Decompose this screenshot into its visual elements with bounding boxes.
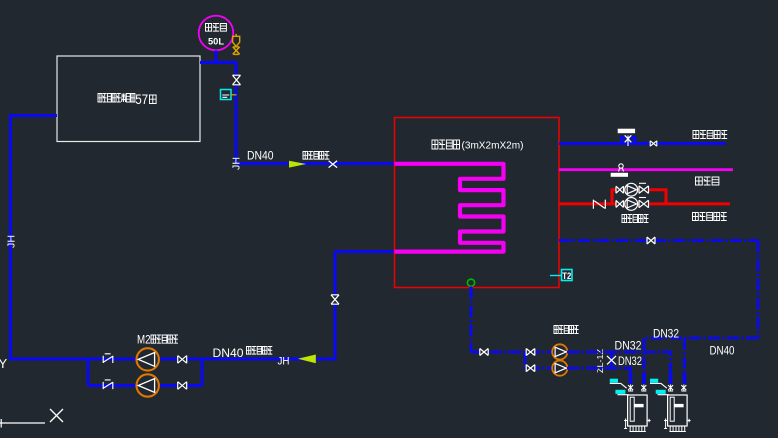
wire: tank bottom drop [470,287,473,353]
svg-text:DN32: DN32 [615,341,642,353]
check valve lower branch [103,380,113,389]
svg-text:T2: T2 [562,271,571,281]
svg-text:DN40: DN40 [710,346,735,358]
wire: collector outlet to left riser [11,114,58,117]
wire: pressure pump bypass branch [612,190,666,204]
wire: solid drops at boiler fittings [631,373,685,384]
wire: pump G1 discharge to right boiler [567,352,671,384]
svg-text:M2: M2 [137,335,151,347]
wire: cold water feed line [559,142,726,145]
svg-text:DN40: DN40 [247,151,274,163]
label 接热水供水 [693,213,727,221]
valve X on DN40 run [329,161,338,168]
boiler 1 sensor lines [610,383,629,394]
wire: bottom main run to pumps [9,358,88,361]
svg-text:57: 57 [135,92,148,107]
valve before boiler pump G2 [526,365,535,372]
svg-text:(3mX2mX2m): (3mX2mX2m) [462,140,524,152]
wire: supply drop to DN40 run [235,61,238,164]
svg-text:50L: 50L [208,37,224,47]
wire: pump G2 discharge to left boiler [567,368,631,384]
sensor T2 box [562,270,573,281]
wire: left riser down [9,114,12,359]
svg-text:JH: JH [6,235,18,248]
label 接回水 [696,177,719,185]
solar collector panel box [57,56,200,142]
wire: coil return riser [334,252,337,361]
flow meter (cyan box) [221,90,232,100]
wire: pump parallel lower branch [88,384,202,387]
valve on suction run [480,349,489,356]
pressure pump B2 [625,198,638,211]
safety valve (gold) [233,34,240,47]
pump M2-2 (collector loop) [137,374,159,396]
wire: collector box top outlet [200,61,236,64]
check valve upper branch [103,354,113,363]
collector label 平板太阳能集热器57块 [98,94,135,103]
float valve gooseneck [622,138,636,144]
svg-text:JH: JH [278,356,290,368]
boiler 1 body [628,395,648,426]
wire: left boiler outlet riser [643,338,646,384]
valve X on crossover [607,356,616,365]
svg-text:DN32: DN32 [618,356,642,368]
pump M2-1 (collector loop) [137,348,159,370]
wire: return water line [559,168,733,171]
valve after pump M2-2 [178,382,187,390]
svg-text:JH: JH [231,157,243,170]
small valve on feed line [650,141,657,147]
air vent bar [611,173,628,177]
wire: tank to boiler DN40 top run [559,239,758,242]
wire: pump parallel left drop [87,358,90,386]
wire: DN40 supply run to coil inlet [236,162,396,165]
boiler 2 body [668,395,688,426]
label 热媒循环管 bottom [247,347,273,355]
valve on collector supply drop [233,75,241,85]
valve after pump M2-1 [178,356,187,364]
wire: pump parallel right drop [201,358,204,386]
wire: right boiler outlet riser [683,338,686,384]
valve on coil return riser [331,295,339,305]
valve before pump B2 [616,200,624,207]
label 接冷水给水 [693,131,727,139]
valve before boiler pump G1 [526,349,535,356]
boiler 2 sensor lines [650,383,669,394]
heat exchanger coil (magenta) [395,164,504,252]
float valve symbol [625,135,632,142]
valve on DN40 top run [647,237,655,244]
pressure pump B1 [625,183,638,196]
stop check valve on supply [593,200,605,209]
wire: right edge riser down [757,241,760,339]
reference line with X [0,419,45,428]
check valve after pump B1 [639,186,649,194]
wire: coil outlet stub [335,250,396,253]
wire: discharge crossover [610,352,613,368]
tank label 贮热水箱(3mX2mX2m) [432,140,460,149]
valve before pump B1 [616,186,624,193]
wire: boiler pump suction run [471,351,552,354]
boiler pump G1 [552,344,567,359]
flow arrow left (green) [298,355,316,364]
svg-text:DN40: DN40 [213,346,244,360]
wire: make-up tank stub [215,51,218,63]
boiler pump G2 [552,361,567,376]
label 热媒循环管 top [303,152,329,160]
svg-text:Y: Y [0,356,8,371]
tank label 补水箱 [206,24,227,32]
flow arrow right (green) [289,161,306,168]
sensor T2 lead [550,275,562,277]
label 锅炉循环泵 [554,326,579,334]
check valve after pump B2 [639,200,649,208]
wire: boiler header run [644,337,758,340]
label 供水加压泵 [622,215,649,223]
storage tank (red box) [395,118,560,288]
tank bottom sensor (green circle) [467,279,474,286]
float valve bar [618,129,635,134]
wire: suction tee drop [525,352,552,368]
wire: pump parallel upper branch [88,358,202,361]
wire: bottom main run pumps to riser [202,358,335,361]
wire: hot water supply line [559,202,730,205]
make-up water tank circle [199,16,234,51]
air vent symbol [619,164,623,168]
svg-text:DN32: DN32 [653,329,679,341]
